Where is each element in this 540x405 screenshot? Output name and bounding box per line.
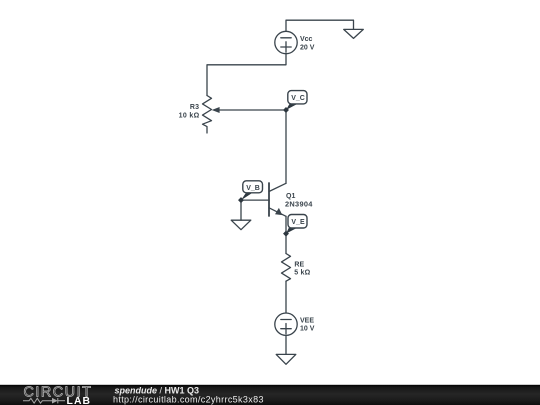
svg-text:10 kΩ: 10 kΩ [179,112,200,119]
svg-text:20 V: 20 V [300,44,315,51]
svg-text:VEE: VEE [300,318,314,325]
svg-text:2N3904: 2N3904 [285,200,313,209]
svg-text:Vcc: Vcc [300,36,313,43]
svg-text:V_B: V_B [246,185,260,192]
svg-text:10 V: 10 V [300,326,315,333]
svg-text:V_E: V_E [291,219,305,226]
svg-text:http://circuitlab.com/c2yhrrc5: http://circuitlab.com/c2yhrrc5k3x83 [113,395,264,405]
svg-text:R3: R3 [190,104,200,111]
svg-text:LAB: LAB [67,396,92,405]
svg-text:V_C: V_C [291,95,305,102]
svg-text:RE: RE [294,261,304,268]
svg-text:5 kΩ: 5 kΩ [294,270,310,277]
